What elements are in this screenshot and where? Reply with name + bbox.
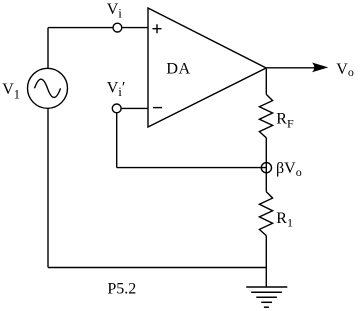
wire: left vertical from top corner down to source V1 (47, 28, 49, 69)
node betaVo (261, 163, 271, 173)
label RF (276, 110, 294, 130)
op-amp - input marker (153, 107, 162, 109)
resistor RF (259, 94, 272, 137)
label Vo (336, 61, 354, 79)
svg-text:P5.2: P5.2 (107, 280, 136, 297)
label V1 (2, 81, 20, 101)
wire: node Vi' down to feedback rail (116, 113, 118, 168)
wire: feedback rail to node betaVo (117, 167, 267, 169)
wire: source V1 bottom down to bottom rail (47, 108, 49, 267)
wire: node Vi' to op-amp - input (121, 107, 148, 109)
node Vi' (112, 104, 121, 113)
op-amp + input marker (153, 24, 162, 33)
wire: R1 down to ground (265, 236, 267, 287)
voltage source V1 (28, 68, 68, 108)
label P5.2 (107, 280, 136, 297)
svg-text:R1: R1 (276, 210, 293, 230)
wire: RF down through node betaVo to R1 (265, 138, 267, 192)
resistor R1 (259, 192, 272, 236)
svg-text:Vi: Vi (107, 1, 123, 21)
label betaVo (276, 160, 302, 179)
op-amp U1 triangle (148, 8, 266, 127)
svg-text:V1: V1 (2, 81, 20, 101)
wire: output from op-amp apex (266, 67, 315, 69)
svg-text:Vi′: Vi′ (107, 80, 126, 100)
wire: node Vi to op-amp + input (122, 27, 148, 29)
svg-text:RF: RF (276, 110, 294, 130)
svg-text:DA: DA (166, 58, 191, 77)
node Vi (113, 23, 122, 32)
ground (246, 287, 287, 307)
wire: apex down to resistor RF (265, 68, 267, 94)
output arrowhead (312, 63, 328, 73)
label DA (166, 58, 191, 77)
svg-text:Vo: Vo (336, 61, 354, 79)
wire: top rail from left corner to node Vi (48, 27, 113, 29)
wire: bottom rail (48, 267, 266, 269)
label Vi (107, 1, 123, 21)
label R1 (276, 210, 293, 230)
label Vi' (107, 80, 126, 100)
svg-text:βVo: βVo (276, 160, 302, 179)
